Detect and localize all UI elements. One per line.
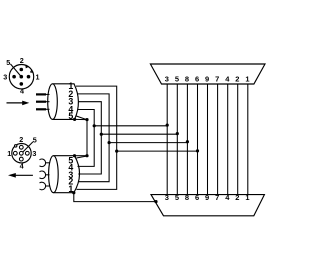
X1 pin 2 — [20, 68, 24, 72]
arrow into male connector — [7, 101, 30, 106]
wire net 4: P1 pin4 to P2 pin4 — [78, 110, 95, 167]
junction tap net1 left — [115, 150, 118, 153]
X2 leader line label 5 to center socket — [23, 142, 33, 153]
junction P1 shell corner — [73, 118, 76, 121]
svg-text:9: 9 — [205, 75, 209, 84]
svg-text:2: 2 — [19, 135, 23, 144]
junction tap net3 left — [100, 133, 103, 136]
P1 pin stubs into shell — [46, 94, 50, 109]
wire shell vertical — [86, 120, 88, 156]
wire D-SUB column 4 — [227, 84, 229, 195]
P2 female contact symbols — [40, 159, 50, 190]
X2 keying notch — [15, 145, 17, 147]
X1 pin 3 — [12, 75, 16, 79]
X2 socket 5 (center) — [19, 151, 23, 155]
wire net 2: P1 pin2 to P2 pin2 — [78, 94, 110, 182]
J1 pin numbers 3 5 8 6 9 7 4 2 1 — [165, 75, 250, 84]
wire tap net1 to column 6 — [117, 150, 198, 152]
wire net 3: P1 pin3 to P2 pin3 — [78, 102, 101, 174]
svg-text:2: 2 — [235, 75, 239, 84]
wire net 5 bottom: P2 pin5 to shell joint — [76, 156, 87, 158]
junction P2 shell corner top — [73, 154, 76, 157]
svg-text:5: 5 — [6, 58, 10, 67]
wire tap net4 to column 3 — [94, 125, 167, 127]
svg-text:5: 5 — [68, 111, 73, 121]
svg-text:2: 2 — [20, 56, 24, 65]
svg-text:5: 5 — [175, 75, 179, 84]
wire D-SUB column 9 — [207, 84, 209, 195]
junction shield on J2 edge — [154, 200, 157, 203]
svg-text:1: 1 — [7, 149, 11, 158]
svg-text:4: 4 — [20, 162, 24, 171]
svg-text:3: 3 — [3, 72, 7, 81]
connector P1 M12 male side view (cylinder) — [48, 84, 79, 120]
svg-text:4: 4 — [20, 86, 24, 95]
X1 leader line label 5 to center pin — [10, 64, 20, 76]
wire shell link bottom — [75, 155, 88, 157]
wire net 1: P1 pin1 to P2 pin1 — [76, 86, 117, 189]
svg-text:5: 5 — [33, 136, 37, 145]
J2 pin numbers 3 5 8 6 9 7 4 2 1 — [165, 193, 250, 202]
connector P2 M12 female side view (cylinder) — [49, 156, 80, 193]
junction tap net1 right on column 6 — [196, 149, 199, 152]
X2 socket 4 — [19, 157, 23, 161]
junction dots — [72, 118, 199, 203]
junction tap net4 right on column 3 — [166, 124, 169, 127]
X1 pin 5 (center) — [20, 75, 24, 79]
junction tap net2 right on column 8 — [186, 140, 189, 143]
X2 socket 1 — [13, 151, 17, 155]
svg-text:1: 1 — [36, 73, 40, 82]
svg-text:8: 8 — [185, 75, 189, 84]
X2 socket 2 — [19, 145, 23, 149]
wire shield to J2 shell — [74, 193, 156, 202]
wire D-SUB column 8 — [186, 84, 188, 195]
X1 keying notches — [26, 65, 33, 72]
X2 socket 3 — [25, 151, 29, 155]
junction shell top — [85, 118, 88, 121]
svg-text:6: 6 — [195, 75, 199, 84]
svg-text:7: 7 — [215, 75, 219, 84]
X1 pin 1 — [27, 75, 31, 79]
svg-text:1: 1 — [245, 75, 249, 84]
junction shell bottom — [85, 154, 88, 157]
wire net 5 top: P1 pin5 to shell joint — [76, 116, 87, 120]
wire tap net2 to column 8 — [109, 142, 187, 144]
connector J2 D-SUB 9 bottom (trapezoid) — [151, 195, 264, 216]
wire D-SUB column 5 — [176, 84, 178, 195]
wire D-SUB column 6 — [197, 84, 199, 195]
junction tap net2 left — [108, 141, 111, 144]
wire D-SUB column 7 — [217, 84, 219, 195]
svg-text:3: 3 — [32, 149, 36, 158]
wire tap net3 to column 5 — [101, 133, 177, 135]
wire D-SUB column 1 — [247, 84, 249, 195]
wire D-SUB column 2 — [237, 84, 239, 195]
connector X2 M12 female face view — [12, 144, 31, 163]
P1 male pin bars — [36, 94, 46, 109]
svg-text:4: 4 — [225, 75, 230, 84]
connector X1 M12 male face view — [9, 65, 33, 89]
connector J1 D-SUB 9 top (trapezoid) — [150, 64, 265, 84]
svg-text:3: 3 — [165, 75, 169, 84]
arrow out of female connector — [8, 173, 33, 178]
wire shell link top — [75, 118, 87, 120]
junction tap net4 left — [93, 124, 96, 127]
junction tap net3 right on column 5 — [176, 132, 179, 135]
wire D-SUB column 3 — [166, 84, 168, 195]
X1 pin 4 — [20, 82, 24, 86]
junction P2 shell corner bottom — [72, 191, 75, 194]
